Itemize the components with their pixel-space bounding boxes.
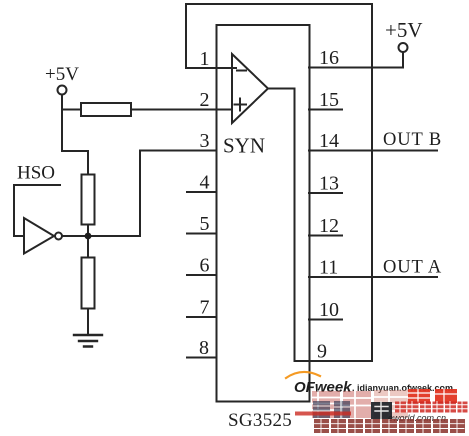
svg-text:11: 11 — [319, 257, 338, 279]
wire pin 16 to +5V — [309, 52, 403, 68]
IC U1 SG3525 body — [217, 25, 310, 402]
watermark big pink char 1 — [312, 391, 340, 418]
op-amp U2 inverting input dash — [237, 70, 246, 72]
svg-text:15: 15 — [319, 89, 339, 111]
inverter U3 bubble — [55, 233, 62, 240]
pin 15 stub — [309, 109, 342, 111]
watermark eeworld red chars — [395, 402, 468, 413]
resistor R2 — [82, 175, 95, 225]
svg-text:14: 14 — [319, 130, 339, 152]
pin 5 stub — [187, 233, 217, 235]
node A junction dot — [85, 233, 92, 240]
wire pin 14 OUT B — [309, 150, 437, 152]
pin 7 stub — [187, 316, 217, 318]
pin 4 stub — [187, 191, 217, 193]
svg-text:16: 16 — [319, 47, 339, 69]
svg-text:12: 12 — [319, 215, 339, 237]
svg-text:OUT A: OUT A — [383, 258, 442, 278]
watermark red char peixun 2 — [435, 389, 457, 403]
svg-text:OUT B: OUT B — [383, 130, 442, 150]
svg-text:6: 6 — [200, 255, 210, 277]
pin 8 stub — [187, 357, 217, 359]
pin 10 stub — [309, 319, 342, 321]
svg-text:5: 5 — [200, 213, 210, 235]
wire pin 2 lead — [131, 109, 232, 111]
ground — [74, 335, 102, 347]
svg-text:HSO: HSO — [17, 163, 55, 184]
svg-text:SYN: SYN — [223, 134, 265, 158]
svg-text:8: 8 — [199, 337, 209, 359]
svg-text:9: 9 — [317, 341, 327, 363]
svg-text:4: 4 — [200, 172, 210, 194]
wire pin 9 lead — [295, 360, 373, 362]
watermark dark navy char overlay 2 — [334, 401, 350, 418]
watermark red char peixun 1 — [408, 389, 430, 403]
wire pin1 to pin9 loop (left up over top, down right side) — [186, 4, 372, 361]
wire R3 to ground — [87, 309, 89, 336]
svg-text:+5V: +5V — [385, 18, 423, 42]
svg-text:10: 10 — [319, 299, 339, 321]
watermark red bar — [295, 412, 351, 416]
resistor R1 — [81, 103, 131, 116]
wire node A to R3 — [87, 236, 89, 258]
wire +5V left down — [62, 95, 88, 175]
watermark big pink char 2 — [343, 391, 371, 418]
watermark dark navy char overlay 1 — [313, 401, 330, 418]
svg-text:2: 2 — [200, 89, 210, 111]
wire inverter output to node A — [62, 235, 88, 237]
op-amp U2 triangle — [232, 54, 268, 123]
wire HSO input — [14, 185, 60, 236]
pin 6 stub — [187, 274, 217, 276]
wire R2 to node A — [87, 225, 89, 237]
watermark OFweek swoosh — [286, 372, 320, 378]
pin 12 stub — [309, 235, 342, 237]
svg-text:+5V: +5V — [45, 64, 79, 85]
svg-text:3: 3 — [200, 130, 210, 152]
wire to resistor R1 — [62, 109, 81, 111]
resistor R3 — [82, 258, 95, 309]
svg-text:7: 7 — [200, 297, 210, 319]
terminal +5V right — [399, 43, 408, 52]
inverter U3 triangle — [24, 218, 54, 254]
svg-text:1: 1 — [200, 48, 210, 70]
svg-text:SG3525: SG3525 — [228, 410, 292, 431]
wire op-amp output to pin 9 — [268, 89, 295, 362]
terminal +5V left — [58, 86, 67, 95]
wire pin 1 lead — [186, 67, 236, 69]
watermark eeworld logo blob — [371, 402, 392, 419]
wire pin 11 OUT A — [309, 276, 437, 278]
wire pin 3 lead — [140, 150, 217, 152]
svg-text:13: 13 — [319, 173, 339, 195]
wire node A to pin 3 — [88, 151, 140, 237]
op-amp U2 non-inverting plus sign — [235, 99, 247, 111]
watermark big pink char 3 — [374, 390, 408, 418]
pin 13 stub — [309, 192, 342, 194]
watermark slogan row dark red chars — [314, 419, 465, 433]
